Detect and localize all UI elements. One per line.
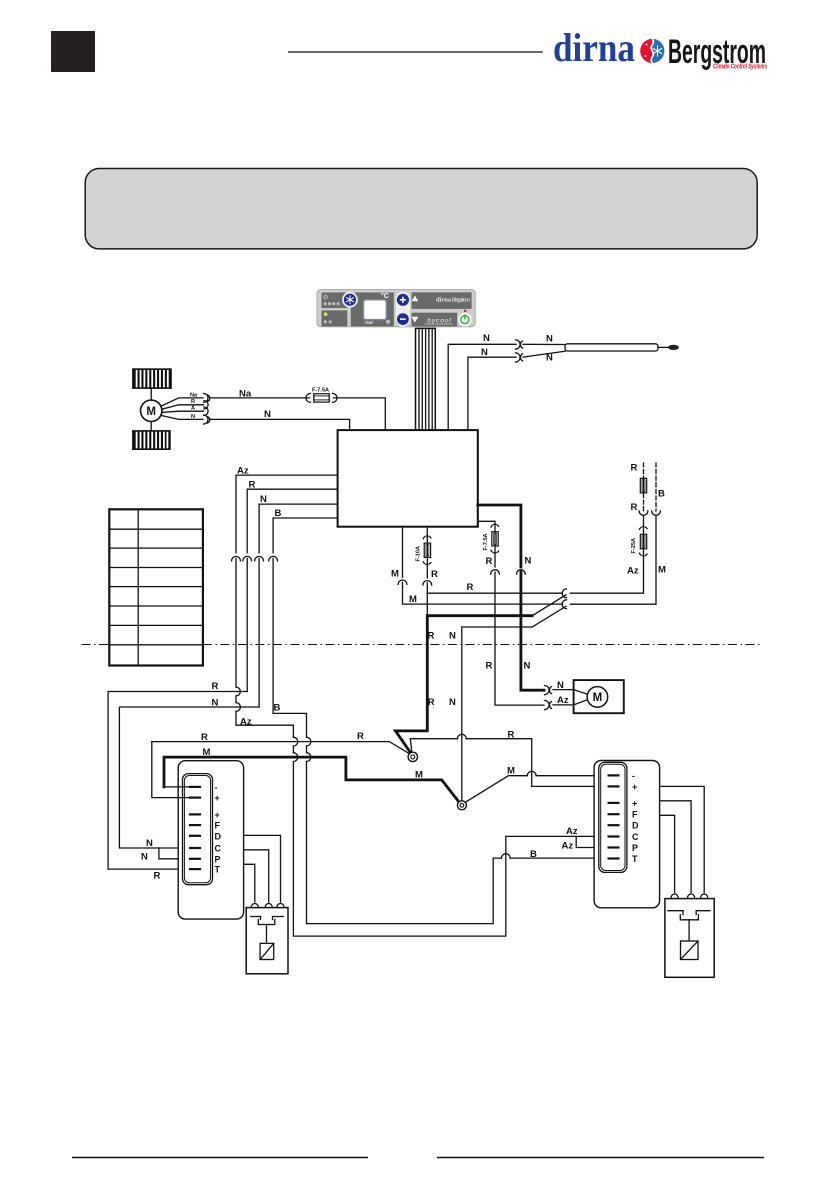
connector sensor top [516,340,523,349]
svg-text:Az: Az [566,826,578,837]
black corner square [51,31,95,72]
svg-text:T: T [632,854,638,864]
svg-text:D: D [632,821,639,831]
svg-text:dirna: dirna [553,25,635,70]
svg-text:F-7.5A: F-7.5A [312,388,329,394]
svg-text:R: R [631,462,638,473]
svg-text:+: + [215,810,220,820]
svg-text:M: M [593,692,603,704]
svg-text:N: N [557,680,564,691]
svg-text:R: R [631,502,638,513]
pressure switch box left [246,908,288,974]
splice grommet 1 [408,752,417,761]
svg-text:N: N [546,334,553,345]
wire R to relays horizontal [152,742,412,755]
wire N lower branch [462,606,566,627]
svg-text:N: N [212,697,219,708]
svg-text:Az: Az [237,465,249,476]
wire right relay plus out [660,786,705,892]
dashed wire R supply [639,463,648,529]
svg-text:F-25A: F-25A [631,538,637,554]
svg-text:dirna: dirna [436,297,452,304]
svg-text:R: R [486,556,493,567]
grey note box [85,169,757,249]
connector motor A [204,407,208,415]
svg-text:R: R [467,582,474,593]
fuse F-25A [571,527,648,594]
svg-text:D: D [215,831,222,841]
wire Na to fuse [210,397,310,399]
svg-text:N: N [146,838,153,849]
motor lead R [162,405,204,410]
svg-text:R: R [249,479,256,490]
divider dash-dot line [82,644,762,646]
wire N vertical to splice [461,627,463,801]
svg-text:N: N [524,661,531,672]
motor lead Na [161,398,203,406]
svg-text:Na: Na [190,392,198,398]
svg-text:+: + [632,798,637,808]
wire Az from ECU [232,475,608,936]
connector sensor bottom [516,353,523,362]
wire R continues to right relay [410,734,608,786]
svg-text:R: R [357,731,364,742]
svg-text:F: F [215,821,221,831]
pin labels left relay [215,782,222,874]
thick wire R junction lower [396,616,533,754]
wire N motor to ECU [210,419,350,430]
svg-text:N: N [264,409,271,420]
wire M into pin minus [164,786,190,788]
relay box right [594,761,660,908]
svg-text:M: M [415,769,423,780]
svg-text:M: M [391,568,399,579]
hop B over Az riser [501,854,510,858]
wire R into pin plus [152,742,190,798]
svg-text:M: M [203,747,211,758]
wire right relay plus2 out [660,801,692,893]
diagonal R to connector [532,595,566,616]
fan block bottom [132,430,171,450]
svg-text:N: N [525,556,532,567]
svg-text:Az: Az [562,841,574,852]
svg-text:R: R [428,630,435,641]
wire Na fuse to ECU [334,398,386,430]
thick wire N ECU to motor [478,505,574,695]
wire left relay D out [244,835,281,902]
svg-text:F-10A: F-10A [415,546,421,562]
wire N from ECU [255,504,338,707]
svg-text:P: P [215,854,221,864]
wire M from ECU bottom [398,527,566,609]
connector motor R [204,401,208,409]
temperature probe [523,344,679,357]
wire R branch to connector [427,592,562,594]
svg-text:N: N [481,347,488,358]
wire B from ECU [269,518,608,924]
wire left relay T out [244,864,255,902]
header rule line [289,51,542,53]
svg-text:B: B [274,702,281,713]
wire R loop left [108,692,247,870]
svg-text:Az: Az [627,566,639,577]
motor shaft top [150,389,152,400]
svg-text:A: A [191,406,195,412]
svg-text:N: N [449,630,456,641]
motor M blower [141,400,162,421]
wire Az branch to pin P [576,836,608,847]
wire N loop left [119,707,259,848]
dashed wire B supply [571,463,661,604]
wire N branch pin P [159,848,195,859]
connector arcs right switch [671,894,708,897]
svg-text:Az: Az [240,716,252,727]
svg-text:R: R [428,697,435,708]
svg-text:B: B [658,489,665,500]
svg-text:TEMP: TEMP [365,321,375,325]
ribbon cable panel to ECU [416,328,436,430]
svg-text:R: R [431,569,438,580]
wire M thick left [164,757,459,802]
wire N sensor bottom [468,357,516,430]
svg-text:Climate Control Systems: Climate Control Systems [713,64,767,71]
svg-text:-: - [215,782,218,792]
splice grommet 2 [457,801,466,810]
motor lead A [162,411,204,412]
wire N sensor top [448,344,516,430]
svg-text:M: M [507,765,515,776]
svg-text:R: R [212,681,219,692]
pin labels right relay [632,771,639,864]
svg-text:B: B [275,508,282,519]
fuse F-7.5A inline [306,388,337,403]
control panel bycool [317,290,475,328]
connector motor N [204,415,210,424]
wire right relay F out [660,815,675,892]
motor shaft bottom [150,422,152,431]
svg-text:M: M [146,406,156,418]
svg-text:C: C [215,844,222,854]
svg-text:+: + [632,782,637,792]
fuse F-7.5A circuit right [478,521,574,709]
svg-text:N: N [260,494,267,505]
svg-text:P: P [632,843,638,853]
fuse F-10A circuit [415,527,431,616]
svg-text:R: R [508,730,515,741]
svg-text:M: M [658,565,666,576]
svg-text:F: F [632,810,638,820]
svg-text:°C: °C [381,292,389,300]
svg-text:N: N [141,852,148,863]
svg-text:N: N [449,697,456,708]
ECU control unit box [338,430,478,527]
svg-text:T: T [215,865,221,875]
svg-text:N: N [483,333,490,344]
svg-text:R: R [154,870,161,881]
pressure switch box right [665,899,714,978]
fan block top [132,368,172,389]
connector R mate [562,589,566,598]
footer line right [437,1157,764,1159]
svg-text:F-7.5A: F-7.5A [483,533,489,550]
condenser motor box [574,680,624,713]
motor lead N [161,415,203,419]
svg-text:R: R [191,399,195,405]
svg-text:Bergstrom: Bergstrom [452,298,470,304]
svg-text:N: N [191,414,195,420]
footer line left [72,1157,368,1159]
svg-text:B: B [530,849,537,860]
svg-text:bycool: bycool [427,317,451,324]
connection table [109,509,203,665]
pins left relay [189,786,201,870]
svg-text:+: + [215,793,220,803]
svg-text:M: M [409,594,417,605]
connector motor Na [204,393,210,402]
wire M to right relay [465,771,608,802]
relay box left [178,761,243,919]
svg-text:-: - [632,771,635,781]
svg-text:R: R [486,661,493,672]
connector arcs left switch [251,904,284,907]
svg-text:C: C [632,832,639,842]
pins right relay [608,774,620,859]
svg-text:Az: Az [557,695,569,706]
wire R from ECU [243,489,338,691]
svg-text:❉: ❉ [386,319,391,326]
logo globe icon [640,39,664,63]
wire left relay C out [244,850,269,902]
